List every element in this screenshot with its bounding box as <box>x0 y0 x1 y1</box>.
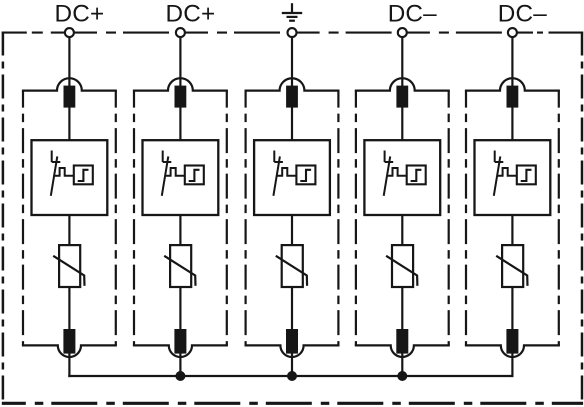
protection path 3 module box top edge with dome over thermal disconnector <box>245 78 340 90</box>
monitoring unit internal symbol: trip signal pulse waveform (path 5) <box>497 168 517 176</box>
wire: varistor to lower disconnector (path 3) <box>291 286 293 330</box>
wire: lower disconnector down to common bus (path 3) <box>291 353 293 377</box>
upper thermal disconnector (path 4) <box>396 86 408 108</box>
protection path 5 module box right side (dash-dot) <box>558 91 560 346</box>
protection path 5 module box bottom edge with dome under lower disconnector <box>465 345 560 357</box>
monitoring / disconnect indication unit box (path 2) <box>143 140 219 215</box>
svg-text:DC+: DC+ <box>165 1 215 28</box>
wire: lower disconnector down to common bus (path 4) <box>401 353 403 377</box>
protection path 3 module box left side (dash-dot) <box>245 91 247 346</box>
protection path 3 module box bottom edge with dome under lower disconnector <box>245 345 340 357</box>
monitoring unit internal symbol: step-function block (path 2) <box>185 166 204 185</box>
protection path 4 module box top edge with dome over thermal disconnector <box>355 78 450 90</box>
wire: monitoring unit to varistor (path 1) <box>68 214 70 246</box>
varistor (path 3) body <box>282 245 303 287</box>
lower thermal disconnector (path 1) <box>63 329 75 354</box>
wire: upper disconnector to monitoring unit (path 5) <box>511 107 513 141</box>
protection path 2 module box bottom edge with dome under lower disconnector <box>133 345 228 357</box>
lower thermal disconnector (path 4) <box>396 329 408 354</box>
protection path 4 module box right side (dash-dot) <box>448 91 450 346</box>
monitoring unit internal symbol: switch contact with trip barb (path 5) <box>494 151 504 196</box>
monitoring / disconnect indication unit box (path 5) <box>475 140 551 215</box>
junction: path 2 to bus <box>175 371 185 381</box>
svg-text:DC+: DC+ <box>54 1 104 28</box>
wire: monitoring unit to varistor (path 4) <box>401 214 403 246</box>
wire: enclosure top edge segment between terminal 2 and terminal 3 <box>185 32 287 34</box>
terminal 5 (DC–) connection point <box>508 28 517 37</box>
wire: monitoring unit to varistor (path 3) <box>291 214 293 246</box>
upper thermal disconnector (path 1) <box>64 86 76 108</box>
protection path 4 module box left side (dash-dot) <box>355 91 357 346</box>
protection path 1 module box bottom edge with dome under lower disconnector <box>22 345 117 357</box>
wire: lower disconnector down to common bus (path 1) <box>68 353 70 377</box>
wire: enclosure top edge segment between terminal 3 and terminal 4 <box>297 32 398 34</box>
varistor (path 1) body <box>59 245 80 287</box>
SPD enclosure boundary bottom edge (dash-dot) <box>2 402 583 405</box>
monitoring unit internal symbol: step glyph inside block (path 4) <box>411 170 422 181</box>
wire: monitoring unit to varistor (path 5) <box>511 214 513 246</box>
varistor (path 3) diagonal stroke with bent tail <box>276 256 307 286</box>
varistor (path 4) body <box>392 245 413 287</box>
protection path 2 module box top edge with dome over thermal disconnector <box>133 78 228 90</box>
wire: upper disconnector to monitoring unit (path 2) <box>179 107 181 141</box>
monitoring unit internal symbol: step glyph inside block (path 1) <box>78 170 89 181</box>
wire: lower disconnector down to common bus (path 5) <box>511 353 513 377</box>
wire: upper disconnector to monitoring unit (path 4) <box>401 107 403 141</box>
wire: varistor to lower disconnector (path 4) <box>401 286 403 330</box>
terminal 3 (earth) connection point <box>288 28 297 37</box>
monitoring unit internal symbol: trip signal pulse waveform (path 1) <box>54 168 74 176</box>
monitoring unit internal symbol: switch contact with trip barb (path 1) <box>51 151 61 196</box>
monitoring / disconnect indication unit box (path 3) <box>254 140 330 215</box>
svg-text:DC–: DC– <box>498 1 547 28</box>
protection path 4 module box bottom edge with dome under lower disconnector <box>355 345 450 357</box>
monitoring unit internal symbol: step-function block (path 5) <box>517 166 536 185</box>
wire: enclosure top edge, right segment from terminal 5 <box>517 32 583 34</box>
monitoring / disconnect indication unit box (path 1) <box>32 140 108 215</box>
monitoring unit internal symbol: step glyph inside block (path 2) <box>189 170 200 181</box>
monitoring unit internal symbol: step-function block (path 4) <box>407 166 426 185</box>
terminal 2 (DC+) connection point <box>176 28 185 37</box>
protection path 1 module box top edge with dome over thermal disconnector <box>22 78 117 90</box>
monitoring unit internal symbol: switch contact with trip barb (path 2) <box>162 151 172 196</box>
wire: terminal 5 down to upper disconnector <box>511 37 513 87</box>
wire: varistor to lower disconnector (path 1) <box>68 286 70 330</box>
wire: enclosure top edge, left segment to terminal 1 <box>2 32 70 34</box>
lower thermal disconnector (path 3) <box>286 329 298 354</box>
wire: enclosure top edge segment between terminal 4 and terminal 5 <box>407 32 508 34</box>
wire: terminal 2 down to upper disconnector <box>179 37 181 87</box>
monitoring unit internal symbol: trip signal pulse waveform (path 4) <box>387 168 407 176</box>
svg-text:DC–: DC– <box>388 1 437 28</box>
terminal 1 (DC+) connection point <box>65 28 74 37</box>
monitoring unit internal symbol: step-function block (path 1) <box>74 166 93 185</box>
varistor (path 5) body <box>502 245 523 287</box>
lower thermal disconnector (path 5) <box>506 329 518 354</box>
terminal 4 (DC–) connection point <box>398 28 407 37</box>
wire: common bottom bus connecting all five paths <box>68 375 513 377</box>
upper thermal disconnector (path 5) <box>507 86 519 108</box>
monitoring / disconnect indication unit box (path 4) <box>364 140 440 215</box>
wire: terminal 1 down to upper disconnector <box>68 37 70 87</box>
wire: varistor to lower disconnector (path 2) <box>179 286 181 330</box>
monitoring unit internal symbol: step-function block (path 3) <box>296 166 315 185</box>
wire: enclosure top edge segment between terminal 1 and terminal 2 <box>74 32 176 34</box>
varistor (path 1) diagonal stroke with bent tail <box>53 256 84 286</box>
wire: lower disconnector down to common bus (path 2) <box>179 353 181 377</box>
wire: upper disconnector to monitoring unit (path 1) <box>68 107 70 141</box>
protection path 2 module box right side (dash-dot) <box>226 91 228 346</box>
SPD enclosure boundary left edge (dash-dot) <box>2 32 5 404</box>
SPD enclosure boundary right edge (dash-dot) <box>581 32 584 404</box>
monitoring unit internal symbol: step glyph inside block (path 3) <box>300 170 311 181</box>
varistor (path 2) diagonal stroke with bent tail <box>164 256 195 286</box>
upper thermal disconnector (path 2) <box>175 86 187 108</box>
varistor (path 2) body <box>170 245 191 287</box>
monitoring unit internal symbol: switch contact with trip barb (path 4) <box>384 151 394 196</box>
varistor (path 5) diagonal stroke with bent tail <box>496 256 527 286</box>
junction: path 3 to bus <box>287 371 297 381</box>
monitoring unit internal symbol: switch contact with trip barb (path 3) <box>273 151 283 196</box>
protection path 3 module box right side (dash-dot) <box>337 91 339 346</box>
wire: upper disconnector to monitoring unit (path 3) <box>291 107 293 141</box>
earth/ground symbol at terminal 3 <box>282 3 302 21</box>
wire: monitoring unit to varistor (path 2) <box>179 214 181 246</box>
lower thermal disconnector (path 2) <box>174 329 186 354</box>
protection path 5 module box left side (dash-dot) <box>465 91 467 346</box>
protection path 2 module box left side (dash-dot) <box>133 91 135 346</box>
monitoring unit internal symbol: trip signal pulse waveform (path 3) <box>277 168 297 176</box>
protection path 5 module box top edge with dome over thermal disconnector <box>465 78 560 90</box>
wire: terminal 4 down to upper disconnector <box>401 37 403 87</box>
monitoring unit internal symbol: step glyph inside block (path 5) <box>521 170 532 181</box>
varistor (path 4) diagonal stroke with bent tail <box>386 256 417 286</box>
junction: path 4 to bus <box>397 371 407 381</box>
wire: varistor to lower disconnector (path 5) <box>511 286 513 330</box>
upper thermal disconnector (path 3) <box>286 86 298 108</box>
protection path 1 module box left side (dash-dot) <box>22 91 24 346</box>
protection path 1 module box right side (dash-dot) <box>115 91 117 346</box>
wire: terminal 3 down to upper disconnector <box>291 37 293 87</box>
monitoring unit internal symbol: trip signal pulse waveform (path 2) <box>165 168 185 176</box>
